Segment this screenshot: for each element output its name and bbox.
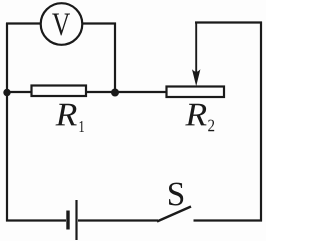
wire voltmeter to right corner xyxy=(82,22,116,24)
wire right vertical of voltmeter branch xyxy=(114,23,116,94)
switch S label xyxy=(169,183,183,206)
rheostat R2 wiper arrow xyxy=(192,22,200,87)
wire top-right horizontal xyxy=(195,21,262,23)
node junction left xyxy=(3,89,10,96)
wire left vertical xyxy=(6,23,8,222)
switch S lever xyxy=(157,207,191,222)
node junction right xyxy=(111,89,119,97)
wire bottom left (to battery) xyxy=(6,219,66,221)
wire main horizontal (R1 row) xyxy=(6,91,166,93)
wire switch to bottom-right corner xyxy=(194,219,263,221)
resistor R2 label xyxy=(185,104,214,131)
rheostat R2 box xyxy=(167,87,225,98)
battery BT1 xyxy=(68,200,77,240)
voltmeter U1 circle xyxy=(41,3,83,45)
resistor R1 label xyxy=(56,104,85,132)
wire right vertical xyxy=(260,22,262,222)
wire battery to switch xyxy=(78,219,158,221)
voltmeter label V xyxy=(52,14,70,36)
wire top-left horizontal to voltmeter xyxy=(6,22,41,24)
resistor R1 box xyxy=(32,86,87,97)
